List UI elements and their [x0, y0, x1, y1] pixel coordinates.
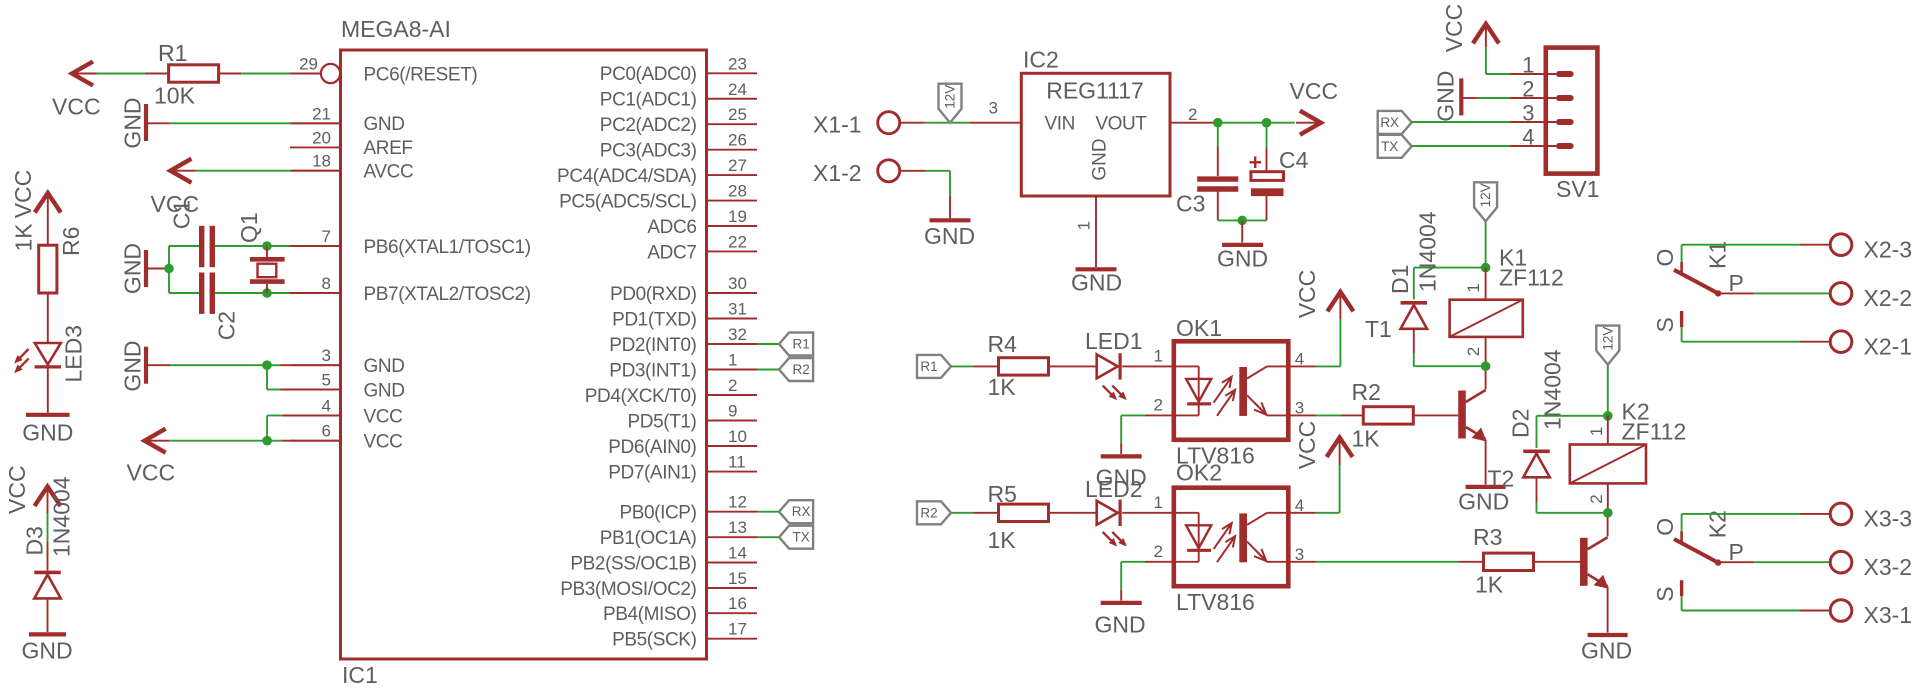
svg-text:1N4004: 1N4004 — [49, 476, 75, 557]
K2 pin 2 wire — [1607, 483, 1609, 512]
svg-text:4: 4 — [322, 397, 331, 416]
capacitor C3 — [1197, 176, 1238, 181]
wire — [1485, 440, 1487, 485]
wire — [1217, 192, 1219, 221]
transistor T1 — [1458, 391, 1466, 439]
wire — [170, 170, 196, 172]
svg-text:1K: 1K — [988, 374, 1017, 400]
wire — [72, 73, 97, 75]
svg-text:LED3: LED3 — [61, 325, 87, 383]
svg-text:VCC: VCC — [1294, 270, 1320, 319]
svg-text:PD4(XCK/T0): PD4(XCK/T0) — [585, 386, 697, 407]
ground symbol (crystal caps) — [144, 250, 148, 287]
IC IC1 MEGA8-AI body — [341, 50, 707, 659]
wire — [757, 536, 779, 538]
ground symbol (LED3) — [26, 413, 70, 417]
svg-text:VCC: VCC — [1441, 4, 1467, 53]
supply VCC arrow (RESET pullup) — [72, 62, 93, 86]
wire — [1485, 366, 1487, 389]
IC1 pin 14 line — [707, 562, 758, 564]
supply flag 12V — [939, 84, 962, 123]
svg-text:GND: GND — [22, 420, 73, 446]
junction — [262, 241, 272, 251]
ground symbol (C3/C4) — [1222, 243, 1263, 247]
svg-text:VCC: VCC — [52, 94, 101, 120]
supply VCC arrow (regulator output) — [1300, 111, 1321, 135]
IC1 pin 29 line — [290, 73, 321, 75]
svg-text:PB2(SS/OC1B): PB2(SS/OC1B) — [570, 553, 696, 574]
svg-text:27: 27 — [728, 156, 747, 175]
svg-text:PB6(XTAL1/TOSC1): PB6(XTAL1/TOSC1) — [364, 237, 531, 258]
svg-text:REG1117: REG1117 — [1046, 78, 1144, 104]
connector pin X1-1 — [878, 112, 900, 134]
svg-text:GND: GND — [924, 223, 975, 249]
ground symbol (AREF/GND pin 21) — [144, 104, 148, 141]
svg-text:AVCC: AVCC — [364, 162, 414, 183]
svg-text:Q1: Q1 — [236, 212, 262, 243]
svg-text:1: 1 — [1154, 347, 1163, 366]
wire — [1682, 513, 1800, 515]
connector pin X2-3 — [1830, 234, 1852, 256]
svg-text:2: 2 — [1464, 347, 1483, 356]
svg-text:D1: D1 — [1387, 265, 1413, 294]
wire — [1607, 587, 1609, 633]
svg-text:RX: RX — [792, 504, 811, 519]
svg-text:C2: C2 — [214, 311, 240, 340]
svg-text:GND: GND — [1581, 638, 1632, 664]
wire — [1413, 414, 1458, 416]
svg-text:31: 31 — [728, 300, 747, 319]
wire — [1719, 561, 1754, 563]
svg-text:PC2(ADC2): PC2(ADC2) — [600, 115, 697, 136]
wire — [267, 364, 281, 366]
svg-text:2: 2 — [1188, 105, 1197, 124]
wire — [1463, 97, 1478, 99]
wire — [1049, 512, 1097, 514]
wire — [266, 365, 268, 389]
wire — [1288, 365, 1315, 367]
svg-text:6: 6 — [322, 422, 331, 441]
junction — [1262, 118, 1272, 128]
IC1 pin 6 line — [290, 440, 341, 442]
IC1 pin 20 line — [290, 146, 341, 148]
IC1 pin 2 line — [707, 394, 758, 396]
ground symbol (IC2) — [1076, 267, 1117, 271]
svg-text:MEGA8-AI: MEGA8-AI — [341, 16, 451, 42]
svg-text:PD1(TXD): PD1(TXD) — [612, 309, 696, 330]
svg-text:20: 20 — [312, 128, 331, 147]
svg-text:12V: 12V — [1478, 183, 1493, 207]
svg-text:PB3(MOSI/OC2): PB3(MOSI/OC2) — [560, 579, 696, 600]
IC1 pin 21 line — [290, 122, 341, 124]
IC1 pin 31 line — [707, 318, 758, 320]
junction — [262, 436, 272, 446]
svg-text:OK1: OK1 — [1176, 315, 1222, 341]
svg-text:S: S — [1652, 317, 1678, 332]
svg-text:2: 2 — [1154, 396, 1163, 415]
svg-text:2: 2 — [1154, 542, 1163, 561]
optocoupler OK2 body — [1174, 488, 1289, 587]
svg-text:VIN: VIN — [1045, 114, 1075, 135]
wire — [47, 599, 49, 632]
diode D2 (flyback) — [1523, 449, 1550, 453]
svg-text:D3: D3 — [22, 526, 48, 555]
svg-text:GND: GND — [364, 114, 405, 135]
junction — [1213, 118, 1223, 128]
ground symbol (OK2 LED) — [1101, 601, 1142, 605]
supply flag 12V (K1) — [1474, 182, 1497, 221]
svg-text:RX: RX — [1380, 115, 1399, 130]
wire — [1485, 24, 1487, 47]
svg-text:P: P — [1729, 270, 1744, 296]
wire — [1414, 267, 1486, 269]
svg-text:32: 32 — [728, 325, 747, 344]
svg-text:R1: R1 — [792, 337, 809, 352]
svg-text:X1-1: X1-1 — [813, 112, 862, 138]
connector SV1 body — [1546, 48, 1598, 174]
svg-text:1: 1 — [1464, 283, 1483, 292]
wire — [1607, 513, 1609, 537]
supply VCC arrow (OK1) — [1327, 292, 1353, 312]
svg-text:2: 2 — [728, 376, 737, 395]
OK2 internal LED — [1174, 512, 1199, 514]
svg-text:3: 3 — [989, 99, 998, 118]
svg-text:29: 29 — [299, 55, 318, 74]
wire — [1412, 145, 1510, 147]
svg-text:X1-2: X1-2 — [813, 160, 862, 186]
junction — [1603, 411, 1613, 421]
wire — [1536, 416, 1538, 448]
svg-text:R2: R2 — [920, 505, 937, 520]
wire — [1266, 196, 1268, 220]
IC1 pin 13 line — [707, 536, 758, 538]
svg-text:GND: GND — [1090, 138, 1111, 180]
svg-text:VCC: VCC — [1290, 78, 1339, 104]
wire — [1682, 341, 1800, 343]
wire — [1288, 414, 1315, 416]
IC1 pin 27 line — [707, 174, 758, 176]
wire — [1536, 477, 1538, 502]
IC1 pin 15 line — [707, 587, 758, 589]
ground symbol (T1) — [1466, 485, 1506, 489]
wire — [1413, 268, 1415, 300]
svg-text:1N4004: 1N4004 — [1415, 211, 1441, 292]
svg-text:GND: GND — [1433, 71, 1459, 122]
svg-text:PB1(OC1A): PB1(OC1A) — [600, 528, 697, 549]
svg-text:16: 16 — [728, 594, 747, 613]
IC1 pin 24 line — [707, 98, 758, 100]
resistor R6 — [39, 245, 57, 293]
svg-text:VCC: VCC — [364, 406, 403, 427]
svg-text:X2-2: X2-2 — [1864, 285, 1913, 311]
relay contact K2 S terminal — [1680, 580, 1683, 596]
wire — [1122, 365, 1174, 367]
svg-text:12V: 12V — [1600, 327, 1615, 351]
SV1 pad pin 4 — [1556, 143, 1574, 149]
signal flag R2 (PD3) — [779, 358, 813, 381]
svg-text:9: 9 — [728, 402, 737, 421]
svg-text:OK2: OK2 — [1176, 460, 1222, 486]
supply VCC arrow (OK2) — [1327, 438, 1353, 458]
wire — [146, 364, 170, 366]
svg-text:1: 1 — [1587, 427, 1606, 436]
IC1 pin 26 line — [707, 149, 758, 151]
svg-text:IC1: IC1 — [342, 662, 378, 688]
svg-text:TX: TX — [1381, 139, 1398, 154]
SV1 pad pin 3 — [1556, 119, 1574, 125]
relay coil K1 — [1450, 300, 1523, 337]
svg-text:19: 19 — [728, 207, 747, 226]
relay coil K2 — [1570, 445, 1646, 484]
wire — [47, 369, 49, 413]
wire — [146, 122, 169, 124]
wire — [266, 416, 268, 441]
junction — [1603, 508, 1613, 518]
LED LED1 — [1097, 354, 1118, 378]
SV1 pin 2 line — [1510, 97, 1556, 99]
svg-text:22: 22 — [728, 232, 747, 251]
signal flag TX — [1378, 135, 1412, 158]
C4 plus sign — [1250, 161, 1262, 163]
junction — [262, 288, 272, 298]
junction — [164, 264, 174, 274]
svg-text:R5: R5 — [988, 481, 1017, 507]
IC1 pin 3 line — [290, 364, 341, 366]
wire — [900, 170, 925, 172]
svg-text:VCC: VCC — [364, 432, 403, 453]
svg-text:GND: GND — [1217, 246, 1268, 272]
svg-text:25: 25 — [728, 105, 747, 124]
junction — [1237, 216, 1247, 226]
K1 pin 2 wire — [1485, 337, 1487, 366]
svg-text:1N4004: 1N4004 — [1540, 349, 1566, 430]
svg-text:O: O — [1652, 249, 1678, 267]
connector pin X2-2 — [1830, 283, 1852, 305]
svg-text:VCC: VCC — [10, 170, 36, 219]
svg-text:PC0(ADC0): PC0(ADC0) — [600, 64, 697, 85]
supply VCC arrow (LED3) — [35, 193, 61, 213]
svg-text:PB0(ICP): PB0(ICP) — [619, 503, 696, 524]
svg-text:GND: GND — [364, 356, 405, 377]
SV1 pad pin 1 — [1556, 71, 1574, 77]
svg-text:GND: GND — [364, 380, 405, 401]
signal flag RX — [1378, 111, 1412, 134]
svg-text:GND: GND — [21, 638, 72, 664]
svg-text:15: 15 — [728, 569, 747, 588]
svg-text:1K: 1K — [988, 527, 1017, 553]
junction — [1481, 263, 1491, 273]
wire — [1266, 123, 1268, 148]
wire — [1145, 561, 1174, 563]
svg-text:8: 8 — [322, 274, 331, 293]
svg-text:R2: R2 — [792, 362, 809, 377]
wire — [1537, 415, 1608, 417]
wire — [1412, 121, 1510, 123]
IC1 pin 8 line — [290, 292, 341, 294]
IC1 pin 28 line — [707, 200, 758, 202]
wire — [168, 246, 170, 293]
svg-text:C4: C4 — [1279, 147, 1309, 173]
svg-text:GND: GND — [120, 97, 146, 148]
svg-text:1K: 1K — [1475, 572, 1504, 598]
voltage regulator IC2 body — [1021, 73, 1170, 196]
svg-text:11: 11 — [728, 453, 746, 472]
wire — [1413, 329, 1415, 353]
IC1 pin 5 line — [290, 389, 341, 391]
svg-text:ADC7: ADC7 — [647, 242, 696, 263]
wire — [900, 122, 926, 124]
signal flag RX (PB0) — [779, 500, 813, 523]
wire — [266, 246, 268, 257]
svg-text:R2: R2 — [1352, 379, 1381, 405]
wire — [1485, 221, 1487, 267]
IC1 pin 16 line — [707, 612, 758, 614]
wire — [1049, 365, 1097, 367]
connector pin X3-1 — [1830, 600, 1852, 622]
wire — [1170, 122, 1213, 124]
OK1 internal phototransistor — [1239, 367, 1247, 416]
relay contact K1 blade — [1681, 245, 1683, 262]
crystal Q1 — [250, 257, 285, 262]
OK1 internal LED — [1174, 365, 1199, 367]
signal flag R1 (PD2) — [779, 333, 813, 356]
ground symbol (SV1 pin2, rotated) — [1459, 78, 1463, 115]
svg-text:SV1: SV1 — [1556, 176, 1599, 202]
wire — [1682, 244, 1800, 246]
IC1 pin 25 line — [707, 123, 758, 125]
svg-text:LED2: LED2 — [1085, 476, 1143, 502]
svg-text:TX: TX — [792, 530, 809, 545]
OK1 internal light arrows — [1214, 377, 1232, 403]
IC1 pin 9 line — [707, 420, 758, 422]
svg-text:R4: R4 — [988, 331, 1018, 357]
svg-text:18: 18 — [312, 152, 331, 171]
resistor R3 — [1484, 553, 1534, 570]
svg-text:VOUT: VOUT — [1095, 114, 1147, 135]
svg-text:PD3(INT1): PD3(INT1) — [609, 360, 696, 381]
capacitor C4 (polarized) — [1251, 172, 1284, 181]
OK2 internal light arrows — [1214, 523, 1232, 549]
svg-text:O: O — [1652, 518, 1678, 536]
svg-text:PD5(T1): PD5(T1) — [628, 411, 697, 432]
svg-text:GND: GND — [120, 340, 146, 391]
resistor R2 — [1363, 407, 1413, 424]
svg-text:30: 30 — [728, 274, 747, 293]
svg-text:12: 12 — [728, 493, 747, 512]
wire — [215, 245, 267, 247]
diode D1 (flyback) — [1401, 301, 1428, 305]
svg-text:LED1: LED1 — [1085, 328, 1143, 354]
svg-text:PC3(ADC3): PC3(ADC3) — [600, 140, 697, 161]
svg-text:1: 1 — [1075, 221, 1094, 230]
wire — [951, 512, 974, 514]
svg-text:VCC: VCC — [1294, 421, 1320, 470]
optocoupler OK1 body — [1174, 341, 1289, 440]
SV1 pin 1 line — [1510, 73, 1556, 75]
supply VCC arrow (AVCC) — [170, 159, 191, 183]
svg-text:VCC: VCC — [127, 460, 176, 486]
ground symbol (X1-2) — [930, 218, 971, 222]
svg-text:X3-1: X3-1 — [1864, 602, 1913, 628]
svg-text:13: 13 — [728, 518, 747, 537]
wire — [267, 245, 290, 247]
svg-text:28: 28 — [728, 182, 747, 201]
svg-text:R6: R6 — [58, 227, 84, 256]
IC1 pin 4 line — [290, 415, 341, 417]
junction — [1481, 361, 1491, 371]
ground symbol (T2) — [1588, 633, 1628, 637]
signal flag R2 (opto input) — [917, 501, 951, 524]
svg-text:GND: GND — [1071, 270, 1122, 296]
wire — [219, 73, 242, 75]
svg-text:AREF: AREF — [364, 138, 413, 159]
ground symbol (IC1 GND pins) — [144, 347, 148, 384]
wire — [1607, 365, 1609, 416]
IC1 pin 12 line — [707, 511, 758, 513]
svg-text:1: 1 — [728, 351, 737, 370]
resistor R5 — [999, 504, 1049, 521]
IC1 pin 10 line — [707, 445, 758, 447]
supply VCC arrow (D3) — [35, 487, 61, 507]
IC2 GND pin wire — [1095, 196, 1097, 267]
svg-text:5: 5 — [322, 371, 331, 390]
svg-text:12V: 12V — [943, 85, 958, 109]
svg-text:VCC: VCC — [4, 465, 30, 514]
svg-text:X2-1: X2-1 — [1864, 334, 1913, 360]
IC1 pin 17 line — [707, 638, 758, 640]
IC1 pin 11 line — [707, 471, 758, 473]
IC1 pin 32 line — [707, 343, 758, 345]
wire — [146, 268, 169, 270]
svg-text:X3-2: X3-2 — [1864, 554, 1913, 580]
SV1 pin 4 line — [1510, 145, 1556, 147]
wire — [1122, 512, 1174, 514]
svg-text:X2-3: X2-3 — [1864, 237, 1913, 263]
svg-text:7: 7 — [322, 227, 331, 246]
svg-text:ZF112: ZF112 — [1622, 419, 1687, 445]
OK2 internal phototransistor — [1239, 513, 1247, 562]
LED LED2 — [1097, 501, 1118, 525]
svg-text:PD7(AIN1): PD7(AIN1) — [608, 462, 696, 483]
svg-text:LTV816: LTV816 — [1176, 589, 1255, 615]
wire — [1682, 610, 1800, 612]
svg-text:PD0(RXD): PD0(RXD) — [610, 284, 697, 305]
wire — [267, 440, 282, 442]
connector pin X3-2 — [1830, 551, 1852, 573]
svg-text:GND: GND — [1458, 489, 1509, 515]
wire — [1145, 414, 1174, 416]
supply VCC arrow (SV1 pin1) — [1473, 24, 1499, 44]
connector pin X1-2 — [878, 160, 900, 182]
svg-text:26: 26 — [728, 131, 747, 150]
svg-text:21: 21 — [312, 104, 331, 123]
svg-text:2: 2 — [1587, 494, 1606, 503]
svg-text:10K: 10K — [154, 83, 196, 109]
wire — [1719, 292, 1754, 294]
relay contact K2 blade — [1681, 514, 1683, 531]
svg-text:23: 23 — [728, 54, 747, 73]
relay contact K1 S terminal — [1680, 311, 1683, 327]
capacitor C2 — [199, 273, 204, 314]
IC1 pin 7 line — [290, 245, 341, 247]
svg-text:PC1(ADC1): PC1(ADC1) — [600, 90, 697, 111]
wire — [951, 365, 974, 367]
K2 pin 1 wire — [1607, 416, 1609, 445]
wire — [47, 487, 49, 514]
connector pin X2-1 — [1830, 331, 1852, 353]
wire — [1241, 220, 1243, 242]
svg-text:C1: C1 — [169, 200, 195, 229]
